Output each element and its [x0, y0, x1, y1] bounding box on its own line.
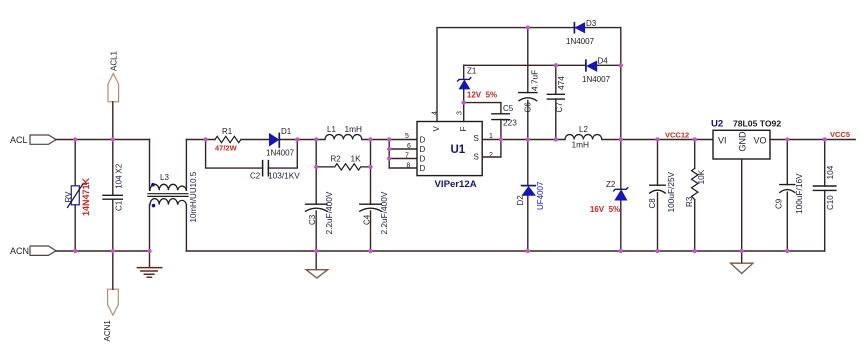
svg-text:VCC5: VCC5: [830, 130, 850, 139]
svg-text:L1: L1: [327, 125, 336, 134]
svg-text:2.2uF/400V: 2.2uF/400V: [324, 191, 334, 234]
svg-text:D3: D3: [586, 19, 597, 28]
wire U1 pin4 riser and top rail A: [437, 28, 621, 122]
diode D3: [566, 19, 597, 46]
svg-text:D2: D2: [516, 195, 525, 206]
wire right riser: [620, 28, 622, 251]
wire U2 output rail: [770, 139, 855, 141]
svg-text:103/1KV: 103/1KV: [268, 171, 300, 181]
capacitor C2 loop: [206, 140, 301, 181]
wire ACN1 stub: [112, 251, 114, 289]
svg-text:ACN1: ACN1: [103, 320, 112, 342]
svg-text:R2: R2: [331, 155, 342, 164]
wire bottom rail: [186, 250, 824, 252]
svg-text:D: D: [420, 155, 426, 164]
svg-text:C5: C5: [503, 104, 514, 113]
capacitor C1: [103, 140, 124, 252]
svg-text:D4: D4: [598, 57, 609, 66]
diode D2: [516, 140, 545, 252]
capacitor C4: [360, 191, 389, 234]
svg-text:C3: C3: [308, 214, 317, 225]
svg-text:Z1: Z1: [467, 67, 477, 76]
wire R1 to D1: [241, 139, 270, 141]
svg-text:100uF/16V: 100uF/16V: [794, 173, 804, 214]
wire D1 to L1: [279, 139, 325, 141]
wire ACL1 stub: [112, 102, 114, 140]
svg-text:R3: R3: [685, 196, 694, 207]
svg-text:UF4007: UF4007: [536, 181, 545, 210]
zener Z1: [458, 65, 498, 102]
svg-text:10mH/UU10.5: 10mH/UU10.5: [189, 171, 198, 222]
svg-text:10K: 10K: [696, 169, 706, 184]
svg-text:C2: C2: [250, 172, 261, 181]
svg-text:474: 474: [556, 76, 566, 90]
svg-text:8: 8: [407, 162, 411, 169]
diode D1: [266, 127, 295, 158]
svg-text:C4: C4: [363, 214, 372, 225]
svg-text:47/2W: 47/2W: [215, 144, 238, 153]
svg-text:100uF/25V: 100uF/25V: [666, 171, 676, 212]
diode D4: [582, 57, 611, 85]
ground under C3: [306, 251, 328, 278]
svg-text:3: 3: [457, 111, 464, 115]
capacitor C5: [492, 103, 517, 140]
connector ACL: [10, 135, 56, 145]
wire U2 GND stub: [741, 159, 743, 251]
wire rail B Z1 to D4: [464, 64, 586, 66]
wire main rail segment L3 to R1: [186, 139, 215, 141]
ground earth under L3: [137, 251, 161, 277]
wire ACL rail: [56, 139, 150, 141]
svg-text:ACN: ACN: [10, 246, 29, 256]
svg-text:L2: L2: [579, 125, 588, 134]
svg-text:D: D: [420, 136, 426, 145]
wire C3 branch vertical: [315, 140, 317, 252]
svg-text:78L05 TO92: 78L05 TO92: [733, 119, 781, 129]
connector ACL1: [108, 50, 119, 101]
capacitor C6: [519, 28, 540, 140]
connector ACN1: [103, 289, 118, 341]
regulator U2 78L05: [711, 119, 781, 160]
capacitor C3: [306, 191, 335, 234]
svg-text:12V 5%: 12V 5%: [467, 91, 497, 100]
svg-text:1mH: 1mH: [572, 140, 590, 150]
svg-text:2: 2: [489, 152, 493, 159]
svg-text:ACL: ACL: [10, 135, 28, 145]
wire U1 pin3 stub: [463, 103, 465, 122]
svg-text:14N471K: 14N471K: [81, 177, 91, 216]
svg-text:VO: VO: [754, 136, 767, 146]
wire D4 to riser: [597, 64, 621, 66]
svg-text:1N4007: 1N4007: [582, 75, 611, 84]
capacitor C7: [547, 65, 566, 139]
svg-text:S: S: [474, 134, 479, 143]
resistor R2: [316, 154, 370, 171]
svg-text:GND: GND: [737, 131, 747, 152]
wire L2 to riser: [602, 139, 713, 141]
svg-text:D: D: [420, 145, 426, 154]
svg-text:C9: C9: [775, 198, 784, 209]
inductor L2: [565, 125, 602, 150]
wire U1 input bus: [389, 140, 417, 169]
svg-text:1K: 1K: [351, 154, 362, 164]
svg-text:D: D: [420, 164, 426, 173]
svg-text:C6: C6: [524, 102, 533, 113]
svg-text:RV: RV: [64, 191, 73, 203]
op-amp U1 VIPer12A body: [417, 122, 482, 191]
svg-text:16V 5%: 16V 5%: [590, 205, 620, 214]
wire FB node to C5: [464, 102, 501, 104]
varistor RV: [64, 140, 91, 252]
wire ACN rail: [56, 250, 150, 252]
capacitor C8: [648, 140, 676, 252]
svg-text:104: 104: [825, 165, 835, 179]
wire C4 branch vertical: [370, 140, 372, 252]
svg-text:F: F: [459, 127, 468, 132]
ground under U2: [731, 251, 754, 274]
svg-text:V: V: [432, 126, 441, 132]
svg-text:D1: D1: [281, 127, 292, 136]
svg-text:C8: C8: [648, 198, 657, 209]
svg-text:U1: U1: [451, 144, 466, 156]
svg-text:ACL1: ACL1: [110, 50, 119, 71]
svg-text:S: S: [474, 153, 479, 162]
svg-text:U2: U2: [711, 119, 723, 130]
svg-text:L3: L3: [160, 173, 169, 182]
svg-text:VI: VI: [718, 136, 727, 146]
resistor R3: [685, 140, 706, 252]
svg-text:R1: R1: [222, 127, 233, 136]
wire L1 to U1 bus: [362, 139, 417, 141]
svg-text:223: 223: [503, 118, 517, 128]
svg-text:7: 7: [405, 153, 409, 160]
svg-text:104: 104: [115, 175, 124, 189]
svg-text:1N4007: 1N4007: [266, 149, 295, 158]
resistor R1: [215, 127, 241, 153]
svg-text:C1: C1: [115, 200, 124, 211]
svg-text:1N4007: 1N4007: [566, 37, 595, 46]
wire U1 pin2 riser: [482, 140, 501, 158]
svg-text:2.2uF/400V: 2.2uF/400V: [379, 191, 389, 234]
capacitor C9: [775, 140, 805, 252]
zener Z2: [590, 180, 628, 214]
svg-text:4.7uF: 4.7uF: [530, 70, 540, 91]
svg-text:6: 6: [407, 143, 411, 150]
connector ACN: [10, 246, 56, 256]
svg-text:5: 5: [405, 133, 409, 140]
wire U1 pin1 to rail: [482, 139, 565, 141]
svg-text:VCC12: VCC12: [665, 131, 689, 140]
inductor L1: [325, 124, 362, 140]
svg-text:VIPer12A: VIPer12A: [435, 179, 477, 190]
svg-text:1mH: 1mH: [345, 124, 363, 134]
svg-text:C10: C10: [826, 195, 835, 210]
svg-text:C7: C7: [555, 102, 564, 113]
inductor L3 common-mode choke: [148, 140, 198, 252]
svg-text:X2: X2: [115, 163, 124, 173]
svg-text:Z2: Z2: [606, 180, 616, 189]
capacitor C10: [813, 140, 836, 252]
